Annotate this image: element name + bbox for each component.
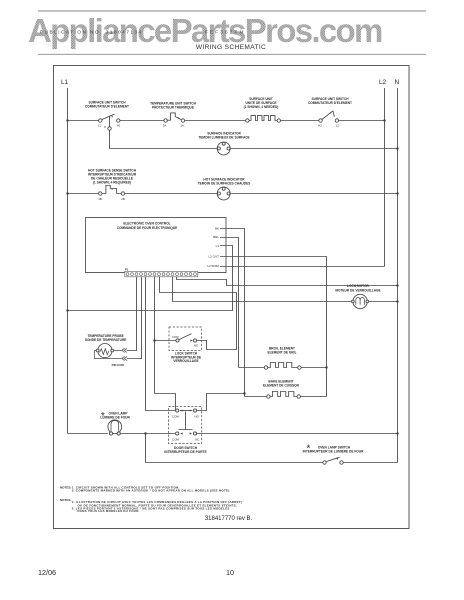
surface unit heating element — [246, 116, 281, 123]
SW1 pin labels L1 P H1 — [98, 124, 121, 130]
wire row1 L1 to surface unit switch — [68, 120, 99, 122]
surface indicator lamp — [217, 142, 230, 155]
header rule top — [38, 10, 426, 12]
door switch lower terminal labels — [172, 438, 199, 442]
junction L1 row1 — [66, 119, 68, 121]
svg-text:COMMANDE DE FOUR ELECTRONIQUE: COMMANDE DE FOUR ELECTRONIQUE — [117, 226, 178, 230]
header rule bottom — [38, 53, 426, 55]
SW2 pin labels H2 L2 — [318, 124, 339, 128]
temperature probe label — [85, 334, 127, 342]
wire lock motor to N bus — [369, 301, 398, 303]
svg-text:WIRING SCHEMATIC: WIRING SCHEMATIC — [196, 44, 266, 51]
wire EOC pin to door switch COM — [146, 277, 176, 411]
oven lamp switch — [323, 457, 343, 464]
notes block english — [60, 485, 231, 492]
lock switch label — [171, 352, 201, 364]
hot surface indicator label — [198, 177, 251, 185]
svg-text:NO: NO — [195, 415, 200, 419]
svg-text:TEMOIN LUMINEUX DE SURFACE: TEMOIN LUMINEUX DE SURFACE — [198, 136, 249, 140]
header model number text — [205, 30, 246, 35]
probe PIN CON label — [112, 363, 124, 367]
hot surface sense switch — [99, 186, 125, 196]
oven lamp switch label — [303, 444, 364, 455]
wire EOC pin to temperature probe top — [136, 277, 137, 351]
EOC terminal label BRL — [213, 235, 226, 239]
door switch mechanical link — [178, 412, 192, 430]
wire oven lamp switch row left — [146, 434, 323, 463]
EOC terminal label BK — [215, 226, 226, 230]
thermal switch pin labels 2A 1A — [163, 124, 184, 128]
wire oven lamp to door switch — [120, 433, 175, 435]
footer page date — [38, 568, 56, 577]
EOC connector strip — [125, 271, 198, 276]
wire row3 L1 to hot surface switch — [68, 193, 99, 195]
N bus wire — [397, 88, 399, 463]
wire thermal switch to surface element — [185, 120, 246, 122]
svg-text:10: 10 — [226, 568, 234, 577]
svg-text:COM: COM — [172, 438, 179, 442]
wire oven lamp row from L1 — [68, 433, 108, 435]
svg-text:P: P — [104, 125, 106, 129]
wire oven lamp switch to N bus — [343, 462, 397, 464]
wire EOC pin to lock motor — [173, 277, 352, 302]
electronic oven control box U1 — [86, 218, 227, 273]
L2 bus wire — [384, 88, 386, 267]
bake element label — [263, 379, 300, 387]
wire broil element right to L2 OUT vertical — [301, 367, 326, 369]
wire door switch NO to bake vertical — [197, 394, 245, 411]
svg-text:BK: BK — [215, 226, 219, 230]
svg-text:NOTES:: NOTES: — [60, 498, 71, 502]
EOC terminal label L2 50/60 — [207, 264, 226, 268]
node L2 label — [379, 79, 387, 86]
junction N EOC feed — [396, 284, 398, 286]
electronic oven control label — [117, 222, 178, 230]
wire EOC pin to lock switch NO — [160, 277, 237, 350]
wire surface indicator to N bus — [230, 148, 397, 150]
broil element label — [267, 346, 296, 354]
node L1 label — [61, 79, 69, 86]
svg-text:L2: L2 — [379, 79, 387, 86]
junction N row2 — [396, 147, 398, 149]
L1 bus wire — [67, 88, 69, 434]
door switch upper contacts COM NO — [176, 409, 197, 412]
svg-text:L1: L1 — [61, 79, 69, 86]
wire EOC BK output to bake left vertical — [226, 229, 245, 397]
notes block french — [60, 498, 242, 513]
svg-text:INTERRUPTEUR DE PORTE: INTERRUPTEUR DE PORTE — [164, 450, 206, 454]
wire SW2 to L2 bus — [339, 120, 385, 122]
wire surface element to SW2 — [281, 120, 319, 122]
svg-text:1B: 1B — [98, 197, 102, 201]
lock motor M1 — [352, 294, 369, 308]
svg-text:NC: NC — [195, 438, 199, 442]
hot surface indicator lamp — [217, 187, 230, 200]
svg-text:H2: H2 — [318, 124, 322, 128]
node N label — [395, 79, 400, 86]
svg-text:ELEMENT DE CUISSON: ELEMENT DE CUISSON — [263, 384, 300, 388]
temperature unit switch label — [150, 102, 197, 110]
surface unit switch SW2 label — [308, 97, 352, 105]
svg-text:2. COMPONENTS MARKED WITH AN: 2. COMPONENTS MARKED WITH AN ASTERISK * … — [72, 488, 231, 492]
wire EOC pin to lock switch COM and door link — [155, 277, 176, 410]
lock switch contacts — [176, 334, 197, 343]
broil element — [264, 363, 301, 370]
svg-text:DANS TOUS LES MODELES DU FOUR.: DANS TOUS LES MODELES DU FOUR. — [78, 509, 140, 513]
svg-text:COM: COM — [172, 335, 179, 339]
wire hot surface indicator to N bus — [230, 193, 397, 195]
svg-text:LOCK MOTOR: LOCK MOTOR — [347, 284, 369, 288]
svg-text:COMMUTATEUR D'ELEMENT: COMMUTATEUR D'ELEMENT — [85, 105, 129, 109]
junction oven lamp switch branch — [144, 432, 146, 434]
oven lamp — [108, 420, 122, 435]
door switch upper terminal labels — [172, 415, 200, 419]
door switch dashed box — [169, 407, 202, 444]
svg-text:NOTES:: NOTES: — [60, 485, 71, 489]
svg-text:12/06: 12/06 — [38, 568, 56, 577]
svg-text:TEMOIN DE SURFACES CHAUDES: TEMOIN DE SURFACES CHAUDES — [198, 181, 251, 185]
svg-text:ELECTRONIC OVEN CONTROL: ELECTRONIC OVEN CONTROL — [123, 222, 170, 226]
watermark AppliancePartsPros.com — [28, 12, 382, 49]
schematic outer border — [54, 66, 410, 529]
svg-text:COM: COM — [172, 415, 179, 419]
svg-text:MOTEUR DE VERROUILLAGE: MOTEUR DE VERROUILLAGE — [335, 288, 380, 292]
wire bake element left — [245, 396, 267, 398]
schematic part number — [205, 516, 253, 522]
svg-text:1A: 1A — [180, 124, 184, 128]
svg-text:PIN CON: PIN CON — [112, 363, 124, 367]
surface unit switch SW2 — [319, 111, 339, 122]
junction L1 row3 — [66, 192, 68, 194]
hot surface switch pin labels 1B 2B — [98, 197, 125, 201]
surface unit element label — [244, 97, 279, 109]
EOC terminal label L1 — [216, 244, 226, 248]
svg-text:(1 SHOWN, 4 REQUIRED): (1 SHOWN, 4 REQUIRED) — [93, 180, 131, 184]
svg-text:(1 SHOWN, 4 NEEDED): (1 SHOWN, 4 NEEDED) — [244, 105, 279, 109]
svg-text:L2: L2 — [336, 124, 340, 128]
header title WIRING SCHEMATIC — [196, 44, 266, 51]
svg-text:2B: 2B — [121, 197, 125, 201]
junction L2 row1 — [383, 119, 385, 121]
svg-text:FEF362FM: FEF362FM — [205, 30, 246, 35]
lock switch dashed box — [169, 327, 202, 351]
lock switch terminal labels COM NO — [172, 335, 199, 348]
junction broil L2 OUT — [325, 366, 327, 368]
wire EOC L2 50/60 input from L2 bus — [226, 266, 385, 268]
svg-text:N: N — [395, 79, 400, 86]
door switch label — [164, 446, 206, 454]
header publication number text — [40, 30, 143, 35]
surface indicator label — [198, 132, 249, 140]
wire P stub down to indicator row — [110, 130, 218, 148]
footer page number — [226, 568, 234, 577]
svg-text:SONDE DE TEMPERATURE: SONDE DE TEMPERATURE — [85, 338, 127, 342]
probe connector chevrons — [122, 348, 127, 360]
svg-text:2A: 2A — [163, 124, 167, 128]
svg-text:PUBLICATION NO. 318047134: PUBLICATION NO. 318047134 — [40, 30, 143, 35]
wire hot surface switch to indicator — [125, 193, 218, 195]
junction N lock motor — [396, 300, 398, 302]
EOC connector P1 label — [125, 267, 129, 271]
junction bake feed — [243, 392, 245, 394]
wire broil element left — [239, 367, 265, 369]
svg-text:BRL: BRL — [213, 235, 219, 239]
svg-text:INTERRUPTEUR DE LUMIERE DE FOU: INTERRUPTEUR DE LUMIERE DE FOUR — [303, 449, 364, 453]
junction N door switch — [396, 432, 398, 434]
oven lamp label — [100, 411, 130, 422]
svg-text:L2 50/60: L2 50/60 — [207, 264, 219, 268]
junction L1 feed — [66, 309, 68, 311]
lock motor label — [335, 284, 380, 292]
surface unit switch SW1 label — [85, 101, 129, 109]
wire EOC L2 OUT to elements right vertical — [226, 257, 327, 397]
wire EOC L1 input from L1 bus — [68, 246, 233, 311]
junction lock COM tap — [153, 339, 155, 341]
svg-text:VERROUILLAGE: VERROUILLAGE — [173, 359, 198, 363]
svg-text:L1: L1 — [98, 124, 102, 128]
svg-text:H1: H1 — [117, 124, 121, 128]
svg-text:LUMIERE DE FOUR: LUMIERE DE FOUR — [100, 416, 130, 420]
svg-text:P1: P1 — [125, 267, 129, 271]
wire bake element right to L2 OUT vertical — [300, 396, 326, 398]
svg-text:L1: L1 — [216, 244, 220, 248]
door switch lower contacts COM NC — [176, 432, 197, 435]
wire door switch NC to N bus — [197, 433, 398, 435]
surface unit switch SW1 — [99, 114, 120, 130]
temperature probe RT1 — [94, 344, 141, 359]
junction N row3 — [396, 192, 398, 194]
hot surface sense switch label — [88, 168, 137, 184]
wire SW1 to thermal switch — [120, 120, 164, 122]
wire EOC pin to temperature probe bottom — [140, 277, 142, 359]
bake element — [267, 392, 301, 399]
svg-text:COMMUTATEUR D'ELEMENT: COMMUTATEUR D'ELEMENT — [308, 101, 352, 105]
wire EOC BRL output to broil left vertical — [226, 238, 239, 368]
svg-text:L2 OUT: L2 OUT — [208, 255, 219, 259]
svg-text:318417770 rev B.: 318417770 rev B. — [205, 516, 253, 522]
svg-text:ELEMENT DE GRIL: ELEMENT DE GRIL — [267, 351, 296, 355]
EOC terminal label L2 OUT — [208, 255, 226, 259]
svg-text:NO: NO — [194, 344, 199, 348]
temperature unit switch (thermal protector) — [164, 113, 185, 122]
svg-text:PROTECTEUR THERMIQUE: PROTECTEUR THERMIQUE — [152, 106, 194, 110]
wire EOC pin to N bus — [177, 277, 398, 286]
